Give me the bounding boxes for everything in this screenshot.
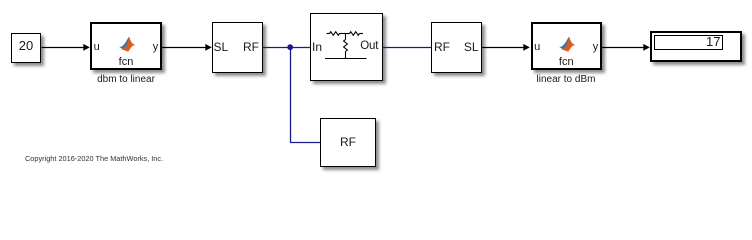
copyright annotation [25, 154, 163, 163]
wire: shunt resistor to ground rail [345, 52, 347, 59]
fcn text [533, 56, 601, 68]
blue wire: RF port to attenuator In [263, 47, 310, 49]
arrowhead into display [643, 44, 650, 51]
display block "17" [650, 31, 742, 62]
wire: top rail right stub [360, 33, 364, 35]
junction node dot [287, 44, 293, 50]
wire: junction to shunt resistor [345, 34, 347, 40]
port label u [94, 41, 100, 53]
block name "linear to dBm" [506, 74, 626, 85]
MATLAB function block U2 "linear to dBm" [531, 22, 603, 70]
blue wire: attenuator Out to RF port [383, 47, 431, 49]
wire: between series resistors [340, 33, 350, 35]
wire: fcn2 y to display [602, 47, 644, 49]
port label RF [434, 40, 450, 54]
resistor R1 (series, left) [330, 32, 340, 36]
display inner value box [654, 35, 723, 50]
fcn text [92, 56, 160, 68]
resistor R2 (series, right) [350, 32, 360, 36]
port label SL [214, 40, 229, 54]
port label y [153, 41, 159, 53]
port label RF [243, 40, 259, 54]
attenuator block (resistor network) [310, 13, 383, 82]
arrowhead into fcn2 u [523, 44, 530, 51]
arrowhead into fcn u [83, 44, 90, 51]
wire: constant 20 to fcn u [42, 47, 84, 49]
MATLAB logo [119, 36, 136, 53]
block name "dbm to linear" [66, 74, 186, 85]
PS-Simulink converter block (RF -> SL) [431, 22, 482, 73]
RF sink block "RF" [320, 118, 376, 167]
MATLAB logo [559, 36, 576, 53]
port label Out [360, 40, 378, 52]
Simulink-PS converter block (SL -> RF) [212, 22, 263, 74]
port label u [534, 41, 540, 53]
wire: SL port to fcn2 u [482, 47, 524, 49]
resistor network icon: top rail [327, 33, 330, 35]
blue wire: junction down to RF sink (vertical) [290, 47, 292, 143]
constant block "20" [11, 33, 41, 63]
port label In [312, 40, 322, 54]
wire: fcn y to SL port [162, 47, 206, 49]
blue wire: junction to RF sink (horizontal) [290, 142, 320, 144]
port label y [593, 41, 599, 53]
arrowhead into SL [205, 44, 212, 51]
MATLAB function block U1 "dbm to linear" [90, 22, 162, 70]
port label SL [464, 40, 479, 54]
ground rail [325, 58, 367, 60]
resistor R3 (shunt, vertical) [344, 40, 348, 52]
